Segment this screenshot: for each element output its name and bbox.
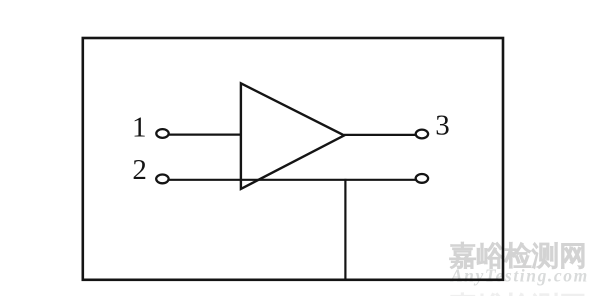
wire pin1 to amplifier input: [169, 134, 242, 136]
watermark 嘉峪检测网: [450, 242, 584, 268]
wire pin2 common rail: [169, 179, 416, 181]
svg-text:AnyTesting.com: AnyTesting.com: [450, 266, 589, 286]
terminal pin 4 (unlabeled): [416, 174, 428, 183]
svg-text:1: 1: [132, 111, 147, 143]
terminal pin 3: [416, 130, 428, 139]
wire amplifier output to pin3: [344, 134, 416, 136]
terminal pin 2: [156, 175, 168, 184]
svg-text:2: 2: [132, 154, 147, 186]
amplifier: [241, 83, 344, 189]
svg-text:3: 3: [435, 110, 450, 142]
wire common rail to case bottom: [344, 179, 346, 279]
terminal pin 1: [156, 129, 168, 138]
watermark faint next row: [450, 293, 584, 296]
package outline: [83, 38, 503, 280]
